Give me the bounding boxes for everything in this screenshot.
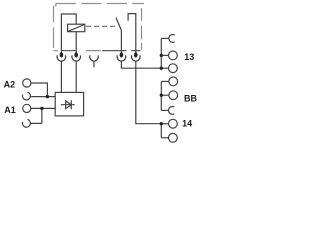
open socket BB bottom [169,106,175,114]
relay pin 12 [74,52,78,57]
svg-text:14: 14 [182,119,192,129]
junction 13 mid [160,54,163,57]
stub BB top [161,80,169,82]
relay pin 11 [60,52,64,57]
stub BB mid [161,94,169,96]
wire cup to box (right coil wire) [75,61,77,92]
svg-text:13: 13 [184,52,194,62]
circle BB mid [169,91,178,100]
junction A2 [46,95,49,98]
diode D1 [61,100,75,109]
junction A1 [40,107,43,110]
wire A2 socket stub [31,96,48,98]
wire coil loop [61,14,76,53]
socket cup pin 12 [72,55,81,61]
svg-text:A1: A1 [4,105,16,115]
coil diagonal [68,25,85,32]
dashed enclosure bottom edge [54,50,101,52]
terminal A2 circle [23,79,31,87]
terminal A2 open socket [22,92,30,100]
protection module box [55,92,83,116]
stub 13 bottom [161,67,168,69]
open socket 13 top [169,34,175,42]
circle BB top [169,77,178,86]
wire cup to box (left coil wire) [60,61,62,92]
junction 13 bottom [160,67,163,70]
socket cup fixed [132,55,141,61]
terminal A1 circle [23,104,31,112]
junction BB mid [160,94,163,97]
fixed contact hook [128,14,136,53]
stub 14 top [161,123,168,125]
socket cup unused [90,55,99,61]
stub 14 bottom [161,137,168,139]
contact blade [116,18,121,53]
stub 13 mid [161,54,168,56]
stub BB bottom [161,109,168,111]
circle 14 bottom [169,133,178,142]
wire A2 to box [31,83,55,97]
terminal 14 bracket [160,124,162,138]
svg-text:A2: A2 [4,79,16,89]
circle 13 bottom [169,64,178,73]
relay pin blade [120,52,124,57]
dashed enclosure top edge [56,3,144,5]
socket cup pin 11 [57,55,66,61]
terminal A1 open socket [22,119,30,127]
stub 13 top [161,37,169,39]
svg-text:BB: BB [184,93,197,103]
mechanical link (dashed) [86,25,116,27]
circle 14 top [169,119,178,128]
circle 13 mid [169,51,178,60]
wire blade cup down and right to 13 [121,61,161,68]
terminal BB bracket [160,81,162,110]
wire fixed cup down and right to 14 [136,61,162,124]
terminal 13 bracket [160,38,162,68]
relay body bottom edge segments [102,50,140,52]
coil K1 [68,24,85,32]
dashed enclosure left edge [53,6,55,49]
wire A1 to box [31,107,55,109]
dashed enclosure right edge [141,8,143,50]
stub under unused cup [93,61,95,67]
relay base solid segment [61,50,76,52]
wire A1 bracket [31,108,42,123]
junction 14 top [160,122,163,125]
socket cup blade [117,55,126,61]
relay pin fixed [134,52,138,57]
